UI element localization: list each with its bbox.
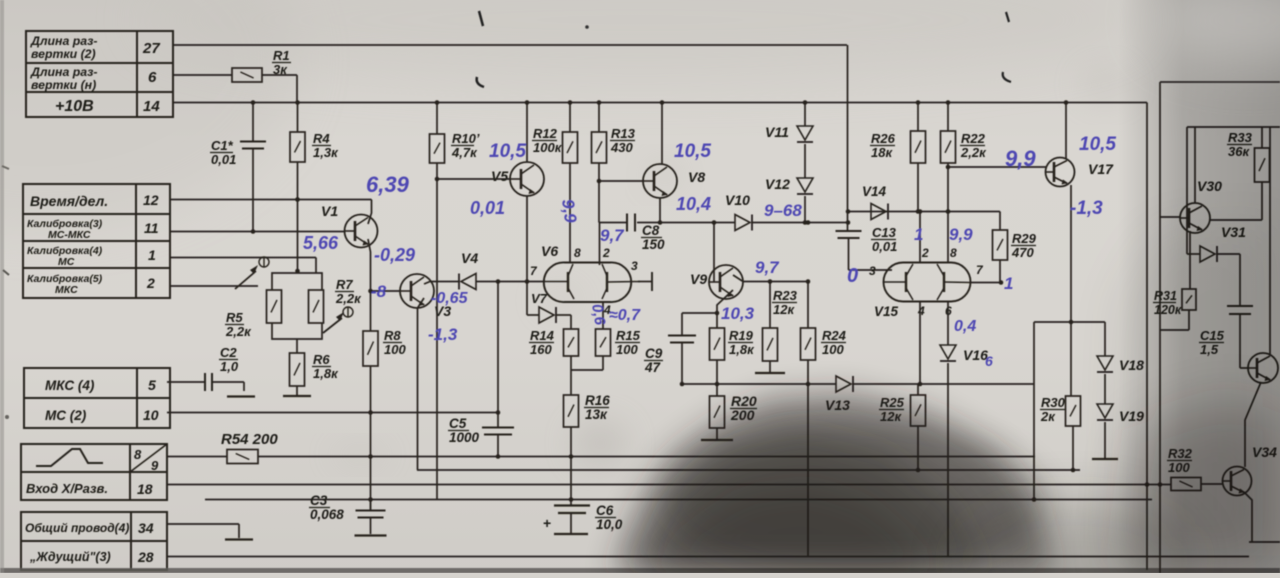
wire C8/V10 node — [599, 222, 626, 224]
svg-text:10,0: 10,0 — [596, 517, 623, 532]
wire V17 emitter long — [1070, 185, 1072, 396]
wire pot mid down — [296, 339, 298, 353]
diode V7 — [527, 314, 539, 316]
capacitor C8 — [626, 214, 628, 232]
svg-text:C3: C3 — [310, 493, 328, 508]
wire pin18 bus y484 — [167, 484, 1171, 486]
wire V9 base drop — [713, 223, 715, 283]
svg-text:R14: R14 — [530, 328, 555, 343]
svg-text:V7: V7 — [531, 291, 548, 306]
diode V10 — [735, 215, 750, 231]
wire to R16 — [570, 370, 572, 395]
wire C15 down — [1239, 314, 1241, 368]
right block inner top — [1187, 126, 1280, 128]
svg-text:МКС: МКС — [55, 284, 78, 296]
svg-text:10,5: 10,5 — [489, 141, 526, 162]
svg-text:Общий провод(4): Общий провод(4) — [25, 521, 129, 535]
wire R31 bottom — [1188, 310, 1190, 330]
svg-text:≈0,7: ≈0,7 — [609, 307, 641, 324]
wire V4 node down to C5 — [497, 282, 499, 413]
connector table at 26,31 — [26, 31, 173, 117]
svg-text:4: 4 — [917, 304, 925, 318]
svg-text:-0,29: -0,29 — [374, 245, 415, 265]
svg-text:V14: V14 — [862, 184, 887, 199]
svg-text:0,01: 0,01 — [872, 239, 897, 254]
wire pin6 to R1 — [173, 74, 232, 76]
svg-text:1: 1 — [914, 225, 923, 244]
svg-text:1: 1 — [1004, 274, 1013, 293]
diode V14 — [871, 204, 886, 220]
wire V5 collector — [526, 103, 528, 163]
resistor R16 — [564, 395, 579, 427]
diode V13 — [836, 376, 851, 392]
wire C2 to ground step — [212, 381, 244, 383]
svg-text:18к: 18к — [871, 145, 893, 160]
wire V7 to R14 — [556, 314, 571, 316]
wire pin11 to V1 base — [170, 231, 345, 233]
wire V12 down — [804, 196, 806, 223]
svg-text:R4: R4 — [313, 131, 330, 146]
svg-text:C9: C9 — [645, 346, 663, 361]
svg-text:8: 8 — [134, 447, 142, 462]
wire V11 column — [804, 103, 806, 127]
capacitor C5 — [497, 413, 499, 428]
wire pin28 bottom bus — [167, 556, 1249, 558]
svg-text:C2: C2 — [220, 345, 237, 360]
wire V19 down — [1104, 422, 1106, 458]
wire V14 node — [848, 211, 1000, 213]
resistor R6 — [290, 353, 305, 386]
wire V15 pin7 to R29 — [971, 282, 1002, 284]
svg-text:Длина раз-: Длина раз- — [30, 65, 97, 79]
svg-text:2: 2 — [602, 246, 610, 260]
diode V11 — [797, 126, 813, 140]
photo bottom edge — [0, 568, 1280, 573]
svg-text:МС: МС — [58, 256, 75, 268]
svg-text:1: 1 — [148, 247, 156, 263]
capacitor C3 — [370, 500, 372, 511]
resistor R22 — [947, 103, 949, 132]
wire R16 down to C6 — [570, 427, 572, 505]
wire V17 collector — [1065, 103, 1067, 160]
svg-text:3: 3 — [631, 259, 638, 273]
wire pin8/9 R54 bus — [167, 456, 227, 458]
svg-text:+: + — [543, 515, 551, 531]
resistor R1 — [232, 68, 262, 82]
wire V33 base — [1240, 367, 1248, 369]
capacitor C15 — [1227, 305, 1253, 307]
svg-text:9,9: 9,9 — [558, 198, 580, 225]
svg-text:-1,3: -1,3 — [428, 325, 458, 344]
svg-text:R12: R12 — [533, 126, 558, 141]
wire V33 emitter to V34 — [1245, 382, 1261, 467]
svg-text:160: 160 — [530, 342, 552, 357]
svg-text:R24: R24 — [822, 328, 847, 343]
svg-text:C5: C5 — [449, 416, 467, 431]
svg-text:C13: C13 — [872, 225, 897, 240]
transistor V8 — [643, 164, 677, 198]
resistor R23 — [769, 282, 771, 329]
svg-text:R15: R15 — [616, 328, 641, 343]
resistor R31 — [1182, 289, 1196, 310]
resistor R10 — [436, 103, 438, 135]
svg-text:V4: V4 — [461, 250, 478, 266]
svg-text:V12: V12 — [765, 176, 790, 192]
resistor R13 — [598, 103, 600, 133]
svg-text:18: 18 — [137, 481, 153, 497]
wire V8 collector — [661, 103, 663, 165]
pen mark top — [479, 11, 483, 26]
resistor R32 — [1171, 478, 1201, 491]
capacitor C13 — [836, 230, 862, 232]
svg-text:R10’: R10’ — [452, 131, 480, 146]
svg-text:R30: R30 — [1041, 395, 1066, 410]
svg-text:3: 3 — [869, 264, 876, 278]
svg-text:100: 100 — [822, 342, 844, 357]
svg-text:8: 8 — [574, 246, 581, 260]
pen dot — [585, 25, 589, 29]
svg-text:100к: 100к — [533, 140, 563, 155]
svg-text:1,8к: 1,8к — [313, 366, 339, 381]
right inner vertical — [1186, 127, 1188, 254]
svg-text:R26: R26 — [871, 131, 896, 146]
svg-text:27: 27 — [142, 40, 160, 57]
wire V15 pin6 drop to V16 — [947, 302, 949, 346]
svg-text:5: 5 — [148, 377, 156, 393]
resistor R5 — [267, 290, 282, 323]
potentiometer block box — [272, 273, 322, 290]
wire V18-V19 — [1104, 374, 1106, 404]
svg-text:V10: V10 — [725, 192, 750, 208]
svg-text:9,9: 9,9 — [1005, 146, 1036, 171]
svg-text:C1*: C1* — [211, 138, 234, 153]
wire pin27 top rail — [173, 44, 847, 46]
svg-text:2к: 2к — [1040, 409, 1056, 424]
wire V15 pin2 drop — [919, 212, 921, 264]
wire R14-R15 join — [571, 369, 603, 371]
wire pin34 — [167, 523, 239, 525]
resistor R24 — [807, 282, 809, 329]
dual transistor V6 — [544, 262, 631, 302]
svg-text:2,2к: 2,2к — [960, 145, 987, 160]
diode V16 — [940, 345, 956, 359]
svg-text:10,4: 10,4 — [676, 194, 711, 214]
svg-text:14: 14 — [143, 98, 160, 115]
wire V18 column — [1104, 322, 1106, 356]
svg-text:34: 34 — [138, 520, 154, 536]
svg-text:R6: R6 — [313, 352, 330, 367]
wire pin12 — [170, 199, 372, 201]
wire V30 top — [1194, 127, 1196, 203]
svg-text:R23: R23 — [773, 288, 798, 303]
shadow hand bottom — [612, 393, 1054, 575]
wire V16 down — [947, 363, 949, 557]
wire bottom right y542 — [1249, 541, 1280, 543]
R30 block box top — [1034, 321, 1105, 323]
pin 8/9 cell diagonal — [130, 444, 167, 472]
resistor R30 — [1066, 396, 1081, 426]
wire R24 drop long — [807, 384, 809, 557]
resistor R19 — [710, 328, 725, 360]
svg-text:R22: R22 — [961, 131, 986, 146]
R30 block left — [1033, 322, 1035, 500]
wire V5 emitter down — [526, 196, 528, 315]
svg-text:R8: R8 — [384, 328, 401, 343]
svg-text:9,7: 9,7 — [600, 226, 625, 245]
svg-text:10,5: 10,5 — [674, 141, 711, 162]
wire V17 base — [948, 166, 1046, 168]
transistor V5 — [510, 162, 544, 196]
dual transistor V15 — [884, 263, 971, 302]
svg-text:9: 9 — [151, 458, 159, 473]
resistor R4 — [297, 103, 299, 133]
wire V3 emitter bus y470 — [417, 469, 1080, 471]
resistor R8 — [370, 330, 372, 331]
svg-text:R5: R5 — [226, 310, 243, 325]
svg-text:R16: R16 — [585, 393, 610, 408]
wire V15 pin4 drop — [919, 302, 921, 385]
svg-text:V11: V11 — [765, 124, 789, 140]
svg-text:10: 10 — [143, 407, 159, 423]
wire V10 out — [752, 222, 848, 224]
wire V3 base — [371, 290, 401, 292]
resistor R7 — [309, 290, 324, 323]
resistor R26 — [917, 103, 919, 132]
wire V6 pin2 drop — [599, 223, 601, 266]
ground bar V19 — [1092, 458, 1118, 460]
svg-text:V15: V15 — [874, 304, 899, 319]
svg-text:0,01: 0,01 — [470, 198, 505, 218]
svg-text:0: 0 — [847, 265, 858, 287]
svg-text:9,7: 9,7 — [755, 258, 780, 277]
wire R32 to V34 base — [1201, 483, 1223, 485]
wire V6 pin3 terminal — [638, 281, 652, 283]
transistor V30 — [1180, 203, 1210, 233]
svg-text:47: 47 — [644, 360, 662, 375]
ground bar after C2 — [227, 395, 255, 397]
wire pin1 — [170, 257, 316, 259]
wire V30 emitter to R31 — [1189, 231, 1191, 289]
svg-text:6: 6 — [148, 69, 157, 86]
svg-text:V9: V9 — [690, 271, 707, 287]
diode V31 — [1187, 253, 1200, 255]
resistor R14 — [570, 315, 572, 329]
wire C9 link — [682, 312, 717, 314]
svg-text:V17: V17 — [1088, 161, 1114, 177]
wire V9 emitter — [717, 290, 733, 328]
svg-text:470: 470 — [1011, 245, 1034, 260]
wire pin10 bus — [167, 412, 498, 414]
svg-text:R13: R13 — [611, 126, 636, 141]
svg-text:10,5: 10,5 — [1079, 134, 1116, 155]
svg-text:МКС (4): МКС (4) — [45, 378, 95, 393]
ground bar C3 — [355, 534, 387, 536]
svg-text:C6: C6 — [596, 503, 614, 518]
ground bar R6 — [283, 395, 311, 397]
svg-text:МС (2): МС (2) — [45, 408, 87, 423]
svg-text:2: 2 — [146, 275, 155, 291]
svg-text:МС-МКС: МС-МКС — [48, 229, 91, 241]
resistor R25 — [917, 384, 919, 395]
wire V8 base — [599, 180, 643, 182]
wire main right vertical — [1146, 103, 1148, 571]
svg-text:+10В: +10В — [55, 98, 94, 115]
wire V3 collector to V4 — [424, 282, 459, 285]
svg-text:0,4: 0,4 — [954, 318, 976, 335]
pen mark comma — [477, 77, 484, 87]
resistor R33 — [1261, 127, 1263, 148]
resistor R12 — [569, 103, 571, 133]
wire V8 emitter — [659, 198, 661, 223]
wire bus y499 — [205, 499, 1152, 501]
transistor V33 — [1248, 353, 1278, 383]
connector table at 23,184 — [23, 184, 170, 298]
svg-text:-8: -8 — [371, 282, 387, 301]
resistor R20 — [716, 384, 718, 396]
wire +10V rail — [173, 102, 1147, 104]
wire pin5 to C2 — [167, 381, 205, 383]
speck left margin — [5, 415, 9, 419]
transistor V17 — [1046, 158, 1075, 187]
capacitor C6 electrolytic — [554, 504, 590, 506]
svg-text:9–68: 9–68 — [764, 201, 802, 220]
svg-text:V8: V8 — [688, 169, 705, 185]
svg-text:Вход Х/Разв.: Вход Х/Разв. — [26, 481, 108, 496]
wire V1 collector — [368, 200, 372, 225]
svg-text:12к: 12к — [773, 302, 795, 317]
svg-text:0,01: 0,01 — [211, 152, 236, 167]
connector table at 24,368 — [24, 368, 170, 428]
svg-text:„Ждущий"(3): „Ждущий"(3) — [29, 550, 111, 564]
svg-text:9,9: 9,9 — [949, 225, 973, 244]
svg-text:C8: C8 — [642, 223, 660, 238]
wire V30 base — [1160, 216, 1180, 218]
transistor V34 — [1223, 467, 1252, 496]
svg-text:10,3: 10,3 — [721, 304, 755, 323]
wire V34 emitter — [1244, 492, 1252, 542]
wire R54 bus continues — [258, 456, 1035, 458]
wire R6 to ground — [296, 386, 298, 395]
wire V9 collector — [733, 275, 808, 282]
right block border — [1160, 81, 1280, 83]
wire V31 to C15 — [1217, 253, 1240, 255]
svg-text:4,7к: 4,7к — [451, 145, 478, 160]
wire V4 to V6 pin7 — [476, 281, 545, 283]
capacitor C1 — [252, 103, 254, 142]
capacitor C9 — [681, 313, 683, 335]
wire V3 emitter down to bus — [418, 298, 425, 470]
wire V5 base — [437, 178, 510, 180]
svg-text:-0,65: -0,65 — [431, 290, 469, 307]
svg-text:150: 150 — [642, 237, 665, 252]
svg-text:6,39: 6,39 — [366, 172, 410, 197]
svg-text:100: 100 — [616, 342, 638, 357]
svg-text:2: 2 — [921, 246, 929, 260]
diode V12 — [797, 178, 813, 192]
svg-text:вертки (2): вертки (2) — [31, 47, 96, 61]
svg-text:2,2к: 2,2к — [335, 291, 362, 306]
transistor V1 — [345, 215, 378, 248]
shadow right strip — [1118, 0, 1280, 573]
svg-text:-1,3: -1,3 — [1070, 198, 1103, 219]
diode V18 — [1097, 356, 1113, 370]
svg-text:11: 11 — [144, 220, 159, 236]
adjust arrow 1 with Ф — [235, 271, 256, 289]
wire C13 to V15 pin3 — [849, 269, 893, 271]
svg-text:1,0: 1,0 — [220, 359, 239, 374]
wire pin2 — [170, 285, 258, 287]
svg-text:R19: R19 — [729, 328, 754, 343]
svg-text:6: 6 — [985, 353, 993, 369]
svg-text:R1: R1 — [273, 48, 290, 63]
svg-text:2,2к: 2,2к — [225, 324, 252, 339]
svg-text:28: 28 — [137, 549, 154, 565]
pen mark top right — [1006, 12, 1009, 22]
svg-text:V5: V5 — [491, 168, 508, 184]
svg-text:R29: R29 — [1012, 231, 1037, 246]
waveform sawtooth symbol — [36, 449, 103, 466]
wire V6 pin4 drop to R15 — [602, 302, 604, 329]
svg-text:Длина раз-: Длина раз- — [30, 34, 97, 48]
diode V4 — [461, 274, 476, 290]
transistor V9 — [709, 265, 743, 299]
wire emitter bus y384 — [682, 383, 836, 385]
capacitor C2 — [204, 373, 206, 391]
svg-text:430: 430 — [610, 140, 633, 155]
connector table at 21,444 — [21, 444, 167, 500]
resistor R29 — [999, 212, 1001, 231]
wire R1 to corner — [262, 74, 297, 76]
svg-text:12: 12 — [143, 192, 159, 208]
svg-text:R7: R7 — [336, 277, 353, 292]
svg-text:5,66: 5,66 — [303, 233, 339, 253]
svg-text:8: 8 — [950, 246, 957, 260]
svg-text:1,8к: 1,8к — [729, 342, 755, 357]
wire V30 collector to R33 — [1210, 219, 1262, 221]
svg-text:0,068: 0,068 — [310, 507, 344, 522]
connector table at 21,512 — [21, 512, 167, 570]
svg-text:13к: 13к — [585, 407, 608, 422]
wire V11-V12 — [804, 144, 806, 178]
svg-text:R54 200: R54 200 — [221, 431, 278, 448]
wire C8 to V10 — [637, 222, 735, 224]
svg-text:100: 100 — [384, 342, 406, 357]
wire V1 emitter down — [368, 239, 371, 330]
svg-text:Время/дел.: Время/дел. — [30, 193, 108, 209]
pen mark comma right — [1003, 72, 1011, 82]
resistor R54 — [227, 450, 258, 464]
wire V33 collector up — [1269, 127, 1271, 354]
svg-text:3к: 3к — [273, 62, 288, 77]
diode V19 — [1097, 404, 1113, 418]
svg-text:1000: 1000 — [449, 430, 480, 445]
svg-text:1,3к: 1,3к — [313, 145, 339, 160]
transistor V3 — [400, 274, 434, 308]
wire pin27 drop to V14 node — [847, 45, 849, 232]
wire V13 out — [853, 383, 1034, 385]
svg-text:V6: V6 — [541, 243, 558, 259]
svg-text:V1: V1 — [321, 203, 338, 219]
resistor R15 — [596, 329, 611, 356]
ground bar pin34 — [225, 538, 253, 540]
svg-text:вертки (н): вертки (н) — [31, 78, 96, 92]
adjust arrow 2 with Ф — [323, 318, 342, 333]
